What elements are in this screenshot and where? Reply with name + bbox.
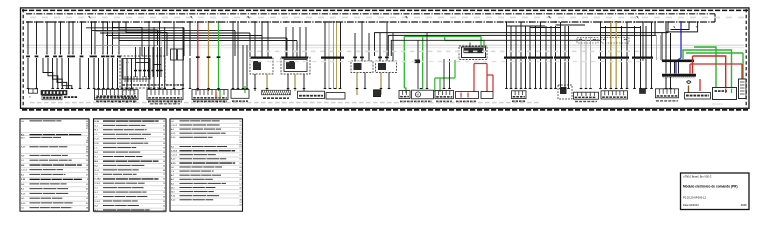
relay K4 box (dashed) — [351, 61, 373, 73]
wire lower L1 — [27, 58, 29, 89]
connector bar R4 — [598, 56, 629, 58]
junction dots bus 30 — [148, 21, 150, 23]
wire green v 422 — [422, 36, 424, 89]
junction on bus 30 at L5 — [60, 21, 62, 23]
bus arrow 2 — [190, 16, 193, 19]
wire green to frame — [686, 52, 743, 54]
pin mark L11 — [101, 55, 105, 57]
connector X1b — [178, 49, 184, 60]
svg-text:xxxxx-xxxx-xx: xxxxx-xxxx-xx — [712, 104, 723, 106]
long wire h right 3 — [391, 40, 601, 56]
fold line gray 2 — [26, 47, 744, 49]
bus 15 power rail (dash-dot) — [26, 13, 715, 15]
wire lower L8 — [103, 58, 105, 89]
wire right g6.1 upper — [645, 26, 647, 57]
wire green v 455 — [454, 60, 456, 78]
cluster K1 text smudge — [123, 84, 126, 86]
wire K3 down b — [303, 74, 305, 91]
wire tr drop 697 — [666, 22, 698, 32]
pin mark L5 — [59, 55, 63, 57]
svg-text:17: 17 — [163, 174, 165, 176]
wire right g2.4 lower — [545, 59, 547, 89]
wire tr drop 655 — [654, 22, 656, 35]
bus arrow 1 — [88, 16, 91, 19]
wire tr drop 643 — [642, 22, 644, 61]
connector bar M3 — [321, 56, 344, 58]
wire gray right v1 — [580, 37, 582, 89]
wire right g1.2 upper — [510, 26, 512, 57]
wire red right v2 — [689, 64, 691, 74]
legend table 3 — [170, 119, 243, 211]
wire center v 470 — [469, 43, 471, 48]
wire lower L10 — [112, 58, 114, 89]
pin mark L7 — [71, 55, 75, 57]
svg-text:M: M — [417, 93, 419, 97]
green pin B11 — [731, 89, 733, 94]
svg-text:C-14.2: C-14.2 — [171, 150, 178, 153]
relay K3 box (dashed) — [281, 57, 310, 74]
red mark in A3 — [215, 92, 217, 98]
wire red h center — [474, 63, 487, 65]
wire lower L13 — [126, 58, 128, 89]
connector bar R1 — [504, 56, 527, 58]
bus arrow 6 — [636, 16, 639, 19]
svg-text:78: 78 — [86, 155, 88, 157]
long wire h right 2 — [388, 35, 656, 56]
svg-text:30: 30 — [86, 142, 88, 144]
designator smudge 455 — [456, 101, 459, 103]
wire green frame v — [742, 53, 744, 79]
svg-text:48: 48 — [86, 208, 88, 210]
svg-text:97: 97 — [86, 128, 88, 130]
svg-text:Módulo eletrônico de comando (: Módulo eletrônico de comando (PR) — [683, 185, 738, 189]
wire olive K5 down — [380, 73, 382, 96]
wire center v 418 — [417, 40, 419, 89]
wire bundle v1 — [183, 28, 185, 56]
junction on bus 30 at L12 — [107, 21, 109, 23]
junction on bus 30 at L6 — [68, 21, 70, 23]
legend table 1 — [20, 119, 89, 211]
frame tick strip right — [745, 9, 747, 108]
wire center v 427 — [426, 33, 428, 89]
wire group4 v2 — [328, 23, 330, 90]
pin mark L13 — [111, 55, 115, 57]
wire mid-left v3 upper — [159, 22, 161, 45]
wire stair 5 — [62, 58, 72, 89]
svg-text:57: 57 — [239, 155, 241, 157]
relay K3 inner box — [284, 60, 307, 72]
wire group3 v3 — [242, 45, 244, 89]
svg-text:1: 1 — [102, 53, 103, 55]
wire bundle v6 — [296, 41, 298, 58]
wire right g2.4 upper — [545, 26, 547, 57]
wire drop 190 — [189, 22, 191, 56]
connector bar X4 label — [263, 97, 266, 99]
wire black fr v1 — [665, 23, 667, 60]
wire red (battery feed) — [197, 23, 199, 92]
svg-text:uT90.0 Brasil, Bm V50-3: uT90.0 Brasil, Bm V50-3 — [683, 174, 712, 178]
relay K2 box (dashed) — [250, 58, 273, 74]
connector strip X2 labels 2 — [64, 96, 67, 98]
wire group4 v5 — [340, 23, 342, 90]
connector bar R5 — [632, 56, 653, 58]
box X6 — [326, 93, 345, 99]
svg-text:42: 42 — [239, 133, 241, 135]
wire gray far right — [660, 35, 662, 60]
wire bundle h3 — [100, 32, 250, 34]
relay feed wires K3 — [285, 27, 287, 57]
wire center v 444 — [443, 59, 445, 89]
svg-text:51: 51 — [86, 184, 88, 186]
wire stair 1 — [43, 58, 53, 89]
wire group3 v2 — [237, 23, 239, 89]
box B6 — [512, 91, 527, 99]
wire right g2.3 lower — [540, 59, 542, 89]
long wire h right 1 — [375, 33, 664, 56]
relay K4 contacts — [354, 63, 362, 70]
module outline gray — [96, 32, 162, 46]
wire drop L10 from bus 30 — [94, 22, 96, 55]
wire right g3.1 lower — [555, 59, 557, 89]
wire right g5.1 lower — [634, 59, 636, 89]
wire green right loop — [683, 50, 732, 87]
svg-text:1: 1 — [59, 53, 60, 55]
svg-text:74: 74 — [163, 134, 165, 136]
wire red right h2 — [690, 63, 742, 65]
left box labels smudge — [96, 101, 99, 103]
wire red v 487 — [486, 64, 488, 93]
wire bundle h1 — [86, 27, 184, 29]
wire lower L7 — [98, 58, 100, 89]
wire right g4.4 lower — [626, 59, 628, 89]
wire olive right b — [615, 22, 617, 89]
big connector X3 dashed insert — [123, 90, 135, 98]
wire group3 v4 — [246, 45, 248, 89]
wire green h2 — [445, 40, 484, 42]
relay K6 box (green area) — [459, 46, 487, 60]
module K1 pin comb — [124, 76, 126, 82]
box B5 — [481, 92, 493, 99]
wire right g3.3 lower — [564, 59, 566, 89]
title block frame — [681, 173, 750, 210]
cluster joins — [136, 62, 149, 64]
svg-text:46: 46 — [239, 171, 241, 173]
svg-text:70: 70 — [239, 125, 241, 127]
wire mid-left v2 upper — [153, 27, 155, 45]
green mark in A3 — [219, 92, 221, 98]
clock spring loop — [687, 81, 691, 84]
pin mark L6 — [67, 55, 71, 57]
wire black fr v2 low — [670, 77, 672, 88]
svg-text:54: 54 — [163, 165, 165, 167]
junction on bus 30 at L9 — [91, 21, 93, 23]
wire mid-left v5 upper — [173, 22, 175, 45]
wire green — [218, 23, 220, 92]
pin mark L10 — [93, 55, 97, 57]
pin mark L2 — [35, 55, 39, 57]
wire end caps row — [27, 88, 30, 90]
sheet border frame outer — [21, 8, 750, 108]
wire right g2.5 lower — [550, 59, 552, 89]
wire right g4.2 lower — [605, 59, 607, 89]
wire drop L4 from bus 30 — [54, 22, 56, 55]
pin mark L1 — [26, 55, 30, 57]
relay K5 box (dashed) — [376, 61, 397, 73]
svg-text:8: 8 — [87, 179, 88, 181]
wire right g6.1 lower — [645, 59, 647, 89]
tall connector X12 — [739, 79, 747, 99]
junction block 415 — [415, 60, 421, 64]
designator smudge 435 — [436, 101, 439, 103]
wire red right v3 — [741, 64, 743, 79]
wire lower L12 — [121, 58, 123, 89]
junction on bus 30 at L11 — [102, 21, 104, 23]
svg-text:90: 90 — [163, 179, 165, 181]
wire right g1.5 upper — [525, 26, 527, 57]
svg-text:1: 1 — [27, 53, 28, 55]
wire mid-left v6 — [182, 45, 184, 89]
connector strip X2 (dark) — [41, 90, 67, 95]
wire mid-left v4 — [164, 45, 166, 89]
svg-text:0948: 0948 — [741, 203, 747, 207]
pin number labels (faint) — [248, 51, 252, 53]
wire right g5.2 upper — [640, 26, 642, 57]
cluster K1 text smudge2 — [166, 84, 169, 86]
wire right g3.2 upper — [560, 22, 562, 57]
wire olive right a — [610, 22, 612, 89]
relay K7 box (dashed) — [558, 85, 572, 99]
connector X1a — [171, 49, 177, 60]
frame tick strip bottom — [22, 109, 748, 111]
svg-text:1: 1 — [72, 53, 73, 55]
small dark box 641 — [640, 89, 646, 94]
wire branch corner 3 — [556, 24, 586, 26]
wire right g1.4 upper — [520, 22, 522, 57]
wire drop L3 from bus 30 — [46, 22, 48, 55]
svg-text:91: 91 — [239, 159, 241, 161]
red pin B4a — [460, 93, 462, 98]
wire gray fr 656 — [656, 35, 658, 60]
wire lower L6 — [93, 58, 95, 89]
wire right g3.3 upper — [564, 26, 566, 57]
svg-text:8: 8 — [87, 193, 88, 195]
svg-text:C-14.2: C-14.2 — [171, 125, 178, 127]
wire branch corner 4 — [601, 27, 641, 29]
pin bar K5a — [378, 56, 382, 58]
bus arrow 3 — [247, 16, 250, 19]
junction on bus 30 at L1 — [27, 21, 29, 23]
wire right g1.5 lower — [525, 59, 527, 89]
tiny box 375 — [374, 90, 381, 97]
wire right g1.3 lower — [515, 59, 517, 89]
svg-text:32: 32 — [239, 179, 241, 181]
wire olive — [208, 23, 210, 92]
svg-text:54: 54 — [239, 163, 241, 165]
svg-text:C-14.2: C-14.2 — [21, 170, 28, 172]
svg-text:55: 55 — [239, 205, 241, 207]
svg-text:51: 51 — [163, 130, 165, 132]
wire lower L11 — [117, 58, 119, 89]
wire black fr v2 — [670, 33, 672, 60]
svg-text:54: 54 — [163, 143, 165, 145]
wire group4 v4 — [336, 23, 338, 90]
X3 inner smudge — [97, 95, 100, 97]
svg-text:69: 69 — [239, 167, 241, 169]
connector bar R2 — [528, 56, 553, 58]
module K1 inner — [123, 59, 150, 80]
bus end cap — [714, 14, 716, 22]
box B2 with motor — [412, 90, 434, 99]
svg-text:1: 1 — [118, 53, 119, 55]
pin mark L9 — [90, 55, 94, 57]
wire green h3 — [435, 77, 455, 79]
wire bundle v5 — [286, 38, 288, 57]
junction on bus 30 at L8 — [81, 21, 83, 23]
wire drop L6 from bus 30 — [68, 22, 70, 55]
wire right g5.1 upper — [634, 26, 636, 57]
wire code labels (faint) — [30, 17, 36, 19]
connector bar R3 — [554, 56, 570, 58]
svg-text:25: 25 — [163, 205, 165, 207]
module box A3 (colored pins) — [192, 90, 228, 100]
red pin B11 — [725, 89, 727, 94]
wire fr between-bars v4 — [678, 62, 680, 74]
wire center v 449 — [449, 59, 451, 89]
svg-text:1: 1 — [80, 53, 81, 55]
wire right g6.2 lower — [651, 59, 653, 89]
wire mid-left v2 — [153, 45, 155, 89]
wire red right loop — [693, 56, 726, 87]
relay K6 inner — [462, 47, 486, 58]
left box labels smudge 2 — [148, 101, 151, 103]
wire corner ul1 — [113, 22, 143, 56]
box B1 — [399, 91, 410, 99]
wire tr drop 689 — [671, 22, 690, 30]
wire right g3.1 upper — [555, 26, 557, 57]
pin mark L4 — [53, 55, 57, 57]
wire mid-left v3 — [159, 45, 161, 89]
wire blue jog — [676, 58, 681, 74]
wire stair 3 — [53, 58, 63, 89]
wire olive K4 down — [356, 73, 358, 96]
wire drop L8 from bus 30 — [81, 22, 83, 55]
wire right g3.2 lower — [560, 59, 562, 89]
wire branch corner 2 — [530, 27, 560, 29]
svg-text:40: 40 — [163, 196, 165, 198]
wire fr between-bars v3 — [674, 62, 676, 74]
wire green h2 corner — [483, 41, 485, 47]
wire right g2.1 lower — [529, 59, 531, 89]
wire right g1.1 upper — [506, 22, 508, 57]
wire fr between-bars v1 — [665, 62, 667, 74]
svg-text:24: 24 — [163, 125, 165, 127]
wire green v 434 — [434, 78, 436, 92]
svg-text:50: 50 — [239, 121, 241, 123]
bus arrow 4 — [405, 16, 408, 19]
svg-text:61: 61 — [86, 203, 88, 205]
red pin B4b — [467, 93, 469, 98]
wire group4 v1 — [324, 23, 326, 90]
svg-text:16: 16 — [86, 170, 88, 172]
junction on bus 30 at L7 — [72, 21, 74, 23]
wire green right inner — [694, 47, 716, 87]
designator smudge 512 — [512, 100, 515, 102]
wire right g2.2 upper — [535, 26, 537, 57]
wire K2 down a — [254, 74, 256, 91]
wire bundle h2 — [92, 29, 235, 31]
frame tick strip top — [22, 9, 748, 11]
wire green top h — [404, 35, 481, 37]
wire right g1.4 lower — [520, 59, 522, 89]
wire black fr v1 low — [665, 77, 667, 88]
wire right g4.3 upper — [621, 26, 623, 57]
pin mark L14 — [117, 55, 121, 57]
svg-text:82: 82 — [86, 189, 88, 191]
wire red right v4 — [699, 79, 701, 91]
relay K6 contacts — [464, 48, 484, 53]
svg-text:1: 1 — [106, 53, 107, 55]
wire lower L14 — [131, 58, 133, 89]
fold line gray — [26, 44, 744, 46]
svg-text:41: 41 — [163, 210, 165, 212]
pin bar olive wire — [207, 56, 211, 58]
connector X11 hatches — [663, 77, 665, 79]
box X5 — [298, 91, 325, 98]
svg-text:C-14.2: C-14.2 — [95, 178, 102, 181]
pin bar K4a — [353, 56, 357, 58]
wire red right drop — [692, 56, 694, 74]
pin mark L12 — [106, 55, 110, 57]
svg-text:1: 1 — [35, 53, 36, 55]
wire bundle h6 — [119, 40, 297, 42]
wire mid-left v4 upper — [164, 27, 166, 45]
wire right g3.4 lower — [568, 59, 570, 89]
junction on bus 30 at L3 — [46, 21, 48, 23]
wire mid-left v5 — [173, 45, 175, 89]
pin bar red wire — [196, 56, 200, 58]
bus arrow tr2 — [696, 26, 699, 29]
wire red v 493 — [492, 75, 494, 91]
wire mid-left v1 — [148, 45, 150, 89]
junction on bus 30 at L13 — [112, 21, 114, 23]
inline connector comb 1 — [577, 38, 598, 44]
connector bar X4 hatched — [262, 90, 291, 95]
wire drop L1 from bus 30 — [27, 22, 29, 55]
wire lower L5 — [88, 58, 90, 89]
wire olive K2 down — [266, 74, 268, 91]
svg-text:30: 30 — [239, 187, 241, 189]
wire green h1-h2 link — [444, 36, 446, 40]
designator smudge 399 — [400, 101, 403, 103]
wire green bottom corner — [404, 88, 406, 93]
pin bar green wire — [217, 56, 221, 58]
left box labels smudge 3 — [193, 101, 196, 103]
module box A2 — [147, 90, 183, 100]
connector bar right X10 (thick) — [662, 59, 694, 62]
svg-text:1: 1 — [54, 53, 55, 55]
svg-text:86: 86 — [86, 152, 88, 154]
svg-text:73: 73 — [239, 151, 241, 153]
box B8 — [601, 91, 628, 99]
connector bar M2 — [282, 56, 308, 58]
wire bundle h5 — [113, 37, 287, 39]
svg-text:92: 92 — [163, 121, 165, 123]
component designator labels (faint) — [30, 102, 35, 104]
wire lower L9 — [107, 58, 109, 89]
wire right g1.3 upper — [515, 26, 517, 57]
svg-text:X-10.1: X-10.1 — [95, 183, 102, 185]
relay feed wires K2 — [254, 22, 256, 58]
